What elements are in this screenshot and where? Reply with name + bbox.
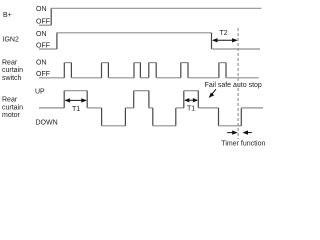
dashed timing reference line <box>237 28 239 139</box>
svg-text:IGN2: IGN2 <box>3 36 19 43</box>
svg-text:switch: switch <box>2 75 22 82</box>
svg-text:UP: UP <box>35 88 45 95</box>
svg-text:Rear: Rear <box>2 97 18 104</box>
annotation fail-safe pointer arrow <box>209 89 216 98</box>
svg-text:ON: ON <box>36 6 47 13</box>
annotation T1 dimension arrow (first UP pulse) <box>65 98 87 102</box>
signal rear curtain motor waveform <box>39 91 263 126</box>
annotation timer function arrows <box>227 130 252 134</box>
svg-text:ON: ON <box>36 31 47 38</box>
svg-text:T2: T2 <box>220 30 228 37</box>
svg-text:ON: ON <box>36 60 47 67</box>
svg-text:Timer function: Timer function <box>221 141 265 148</box>
signal B+ waveform <box>39 8 262 25</box>
svg-text:curtain: curtain <box>2 67 23 74</box>
svg-text:DOWN: DOWN <box>36 119 58 126</box>
annotation T2 dimension arrow <box>212 38 238 42</box>
svg-text:OFF: OFF <box>36 18 50 25</box>
signal rear curtain switch waveform <box>39 63 259 78</box>
svg-text:OFF: OFF <box>36 71 50 78</box>
signal IGN2 waveform <box>39 33 260 49</box>
svg-text:curtain: curtain <box>2 104 23 111</box>
svg-text:B+: B+ <box>3 12 12 19</box>
svg-text:motor: motor <box>2 112 21 119</box>
svg-text:T1: T1 <box>187 106 195 113</box>
svg-text:T1: T1 <box>72 106 80 113</box>
svg-text:OFF: OFF <box>36 42 50 49</box>
svg-text:Rear: Rear <box>2 60 18 67</box>
annotation T1 dimension arrow (third UP pulse) <box>184 98 198 102</box>
svg-text:Fail safe auto stop: Fail safe auto stop <box>205 82 262 89</box>
